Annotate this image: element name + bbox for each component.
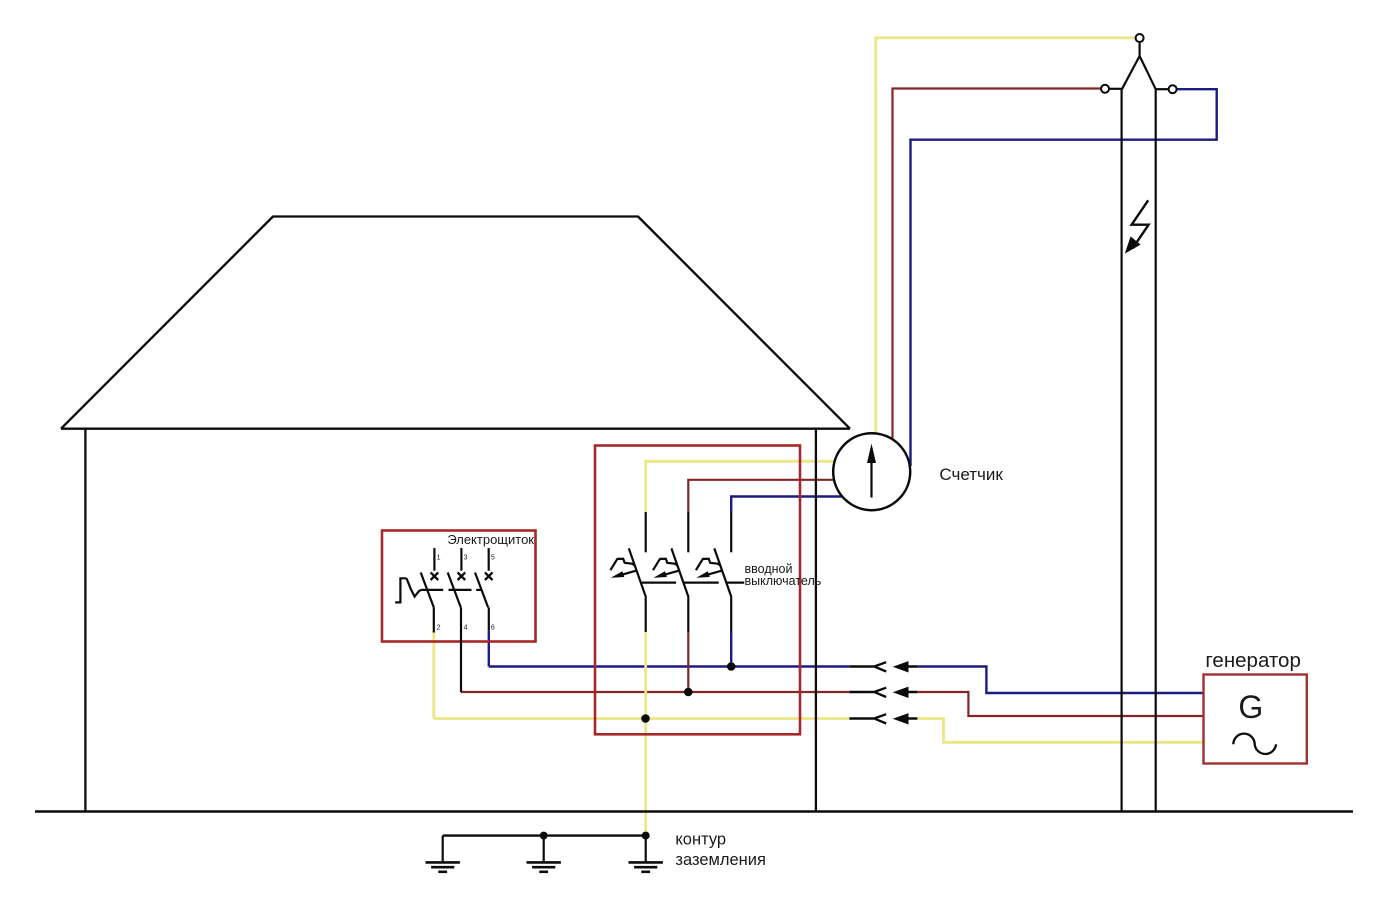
svg-text:1: 1: [437, 555, 441, 562]
switch pole S1 bottom lead: [433, 607, 435, 632]
label генератор: [1205, 649, 1300, 672]
svg-text:G: G: [1238, 689, 1263, 725]
label Электрощиток: [447, 532, 534, 547]
label контур заземления: [675, 831, 766, 869]
grounding bus junction dot right: [642, 832, 650, 840]
ground electrode symbol 2: [527, 836, 561, 872]
switch pole S3: [475, 548, 495, 631]
pole insulator top: [1136, 34, 1144, 42]
wire blue switch pole3 drop: [488, 630, 490, 667]
phase bus dark red from switch pole2 to generator: [461, 692, 1204, 716]
phase bus blue from switch pole3 to generator: [489, 667, 1204, 694]
switch pole S1: [421, 548, 441, 631]
phase bus yellow from switch pole1 to generator: [434, 719, 1204, 743]
pole insulator right: [1156, 85, 1177, 93]
utility pole: [1122, 89, 1156, 811]
wire dark red from meter to breaker QF2: [688, 480, 858, 512]
connector symbol (chevron and arrow) on phase wire 3: [849, 713, 917, 724]
svg-text:генератор: генератор: [1205, 649, 1300, 672]
wire blue from meter to breaker QF3: [731, 497, 850, 513]
pole top cross-arm triangle and stem: [1122, 42, 1156, 89]
grounding bus junction dot left: [540, 832, 548, 840]
wire blue breaker QF3 drop to junction: [730, 632, 732, 667]
connector symbol (chevron and arrow) on phase wire 2: [849, 687, 917, 698]
box вводной выключатель (red outline): [595, 446, 800, 735]
wire L1 yellow from pole top insulator to meter: [876, 38, 1136, 450]
svg-text:Электрощиток: Электрощиток: [447, 532, 534, 547]
switch pole S2 bottom lead: [460, 607, 462, 692]
junction dot blue bus: [727, 662, 736, 671]
box Электрощиток (red outline): [382, 531, 536, 642]
circuit breaker QF2: [653, 512, 719, 632]
wire yellow switch pole1 drop: [432, 633, 435, 719]
house outline: [61, 217, 850, 812]
generator box G: [1204, 675, 1307, 764]
ground electrode symbol 1: [426, 836, 460, 872]
switch pole S3 bottom lead: [488, 607, 490, 630]
svg-text:3: 3: [464, 555, 468, 562]
junction dot yellow bus: [641, 714, 650, 723]
lightning bolt arrow on pole: [1125, 200, 1149, 253]
switch pole S2: [448, 548, 468, 631]
switch linkage bar: [421, 589, 481, 591]
circuit breaker QF1: [610, 512, 676, 632]
wire L2 dark red from pole left insulator to meter: [893, 89, 1102, 446]
svg-text:контур: контур: [675, 831, 726, 849]
grounding bus: [443, 834, 647, 836]
ground level line: [35, 810, 1353, 813]
wire yellow PE drop to grounding bus: [644, 719, 647, 836]
junction dot dark red bus: [684, 688, 693, 697]
connector symbol (chevron and arrow) on phase wire 1: [849, 661, 917, 672]
meter arrow: [867, 444, 876, 498]
svg-text:выключатель: выключатель: [745, 574, 822, 588]
generator letter G: [1238, 689, 1263, 725]
svg-text:Счетчик: Счетчик: [939, 465, 1003, 484]
label вводной выключатель: [745, 562, 822, 588]
svg-text:5: 5: [491, 555, 495, 562]
wire L3 blue from pole right insulator to meter: [911, 89, 1217, 466]
svg-text:2: 2: [437, 625, 441, 632]
ground electrode symbol 3: [629, 836, 663, 872]
svg-text:6: 6: [491, 625, 495, 632]
wire yellow breaker QF1 drop to junction: [644, 632, 647, 719]
svg-text:заземления: заземления: [675, 851, 766, 869]
generator sine wave symbol: [1233, 734, 1276, 754]
pole insulator left: [1101, 85, 1122, 93]
circuit breaker QF3: [696, 512, 744, 632]
switch manual handle: [395, 578, 421, 602]
wire dark red breaker QF2 drop to junction: [687, 632, 689, 692]
svg-text:4: 4: [464, 625, 468, 632]
wire yellow from meter to breaker QF1: [646, 461, 871, 512]
meter (Счетчик) circle: [833, 433, 910, 510]
label Счетчик: [939, 465, 1003, 484]
